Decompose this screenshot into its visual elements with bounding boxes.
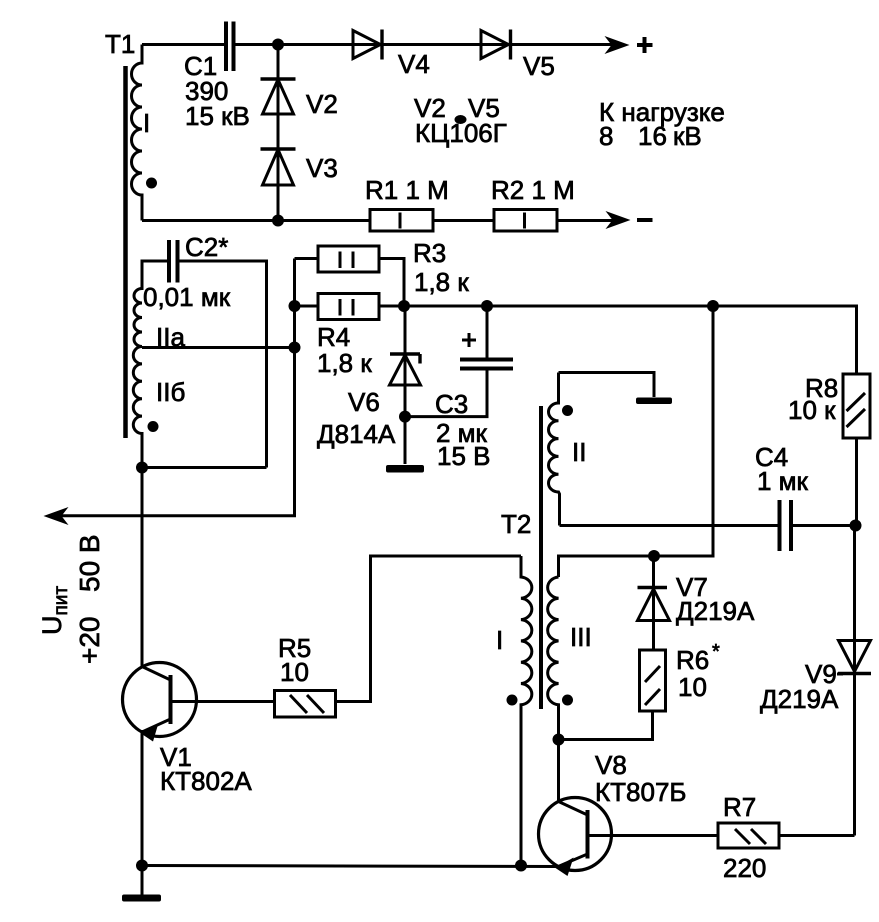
transistor V1 [123, 663, 275, 866]
arrow minus output [606, 211, 631, 229]
label V8 [595, 750, 686, 807]
svg-text:*: * [712, 641, 720, 663]
svg-text:15 В: 15 В [437, 441, 491, 471]
svg-text:R3: R3 [413, 238, 446, 268]
diode V7 [638, 556, 670, 650]
wire node column [60, 259, 295, 516]
wire C2 right side down [180, 261, 267, 468]
svg-text:50 В: 50 В [74, 534, 105, 592]
node V6 bottom junction [399, 411, 411, 423]
resistor R4 [295, 294, 405, 320]
label V2...V5 type [414, 93, 507, 148]
node V7 junction [648, 550, 660, 562]
svg-text:кВ: кВ [673, 121, 702, 151]
node C1/V2 junction [272, 39, 284, 51]
transformer T1 winding I [132, 45, 143, 221]
transformer T2 core [539, 406, 543, 709]
svg-text:10 к: 10 к [788, 395, 836, 425]
label V7 [676, 572, 755, 626]
svg-text:III: III [570, 622, 592, 652]
svg-text:Т1: Т1 [105, 29, 135, 59]
diode V4 [353, 30, 382, 60]
svg-text:V2: V2 [306, 89, 338, 119]
svg-text:Д219А: Д219А [676, 596, 755, 626]
label C3 [435, 389, 491, 471]
resistor R5 [275, 691, 336, 718]
diode V5 [481, 30, 511, 60]
capacitor C2 [169, 240, 178, 283]
wire R1 to R2 [433, 219, 494, 222]
svg-text:1 мк: 1 мк [757, 466, 809, 496]
node R3 output junction [398, 300, 410, 312]
svg-text:V4: V4 [398, 49, 430, 79]
svg-text:15 кВ: 15 кВ [185, 101, 250, 131]
label R5 [278, 633, 311, 687]
svg-text:10: 10 [280, 657, 309, 687]
label V6 [317, 387, 396, 449]
label R7 [723, 792, 766, 883]
resistor R6 [640, 650, 666, 711]
svg-text:С2*: С2* [185, 232, 228, 262]
node V1 emitter junction [136, 860, 148, 872]
resistor R8 [843, 374, 870, 438]
node tap junction [289, 342, 301, 354]
svg-text:I: I [143, 108, 150, 138]
minus output label [637, 218, 653, 222]
label R4 [317, 322, 372, 378]
svg-text:220: 220 [723, 853, 766, 883]
svg-text:КЦ106Г: КЦ106Г [415, 118, 507, 148]
wire R7 to V8 base [588, 834, 718, 837]
wire C2 top side [142, 261, 167, 289]
transistor V8 [539, 798, 612, 877]
label Upit rotated [37, 534, 105, 664]
diode V2 [261, 45, 296, 221]
wire IIb bottom to C2 loop [142, 466, 267, 469]
node R4 left junction [289, 300, 301, 312]
T2 winding III polarity dot [562, 695, 573, 706]
wire C1 to plus arrow through V4 V5 [236, 43, 617, 46]
plus output label [637, 37, 653, 53]
capacitor C3 electrolytic [405, 306, 513, 417]
svg-text:+20: +20 [74, 617, 105, 665]
T2 winding II polarity dot [562, 405, 573, 416]
svg-text:R1 1 М: R1 1 М [365, 175, 449, 205]
label R6 [676, 641, 720, 702]
svg-text:IIб: IIб [156, 377, 185, 407]
node C4/R8/V9 junction [850, 520, 862, 532]
wire R6 bottom to winding III bottom [559, 711, 653, 740]
wire winding II bottom to C4 [560, 524, 779, 527]
wire V1 collector lead [141, 468, 144, 668]
resistor R2 [494, 210, 557, 232]
svg-text:16: 16 [638, 121, 667, 151]
diode V3 [261, 149, 296, 185]
resistor R7 [718, 823, 779, 848]
svg-text:R7: R7 [723, 792, 756, 822]
T2 winding I polarity dot [507, 695, 518, 706]
svg-text:V5: V5 [523, 51, 555, 81]
svg-text:1,8 к: 1,8 к [414, 267, 469, 297]
wire V8 collector lead [557, 740, 560, 804]
transformer T1 winding IIa [134, 261, 142, 347]
node winding III bottom junction [553, 734, 565, 746]
resistor R3 [295, 246, 405, 306]
wire main rail to R8 [404, 306, 857, 374]
svg-text:Д219А: Д219А [760, 684, 839, 714]
wire C4 to right column [793, 524, 856, 527]
svg-text:V3: V3 [306, 153, 338, 183]
transformer T1 winding IIb [133, 347, 142, 468]
wire bottom emitter rail [142, 866, 557, 867]
transformer T1 core [123, 66, 128, 438]
wire T1 bottom row to R1 [142, 219, 370, 222]
wire T1 top to C1 [142, 43, 224, 46]
ground at V6 [386, 465, 424, 473]
resistor R1 [370, 210, 433, 232]
label K nagruzke [599, 97, 725, 151]
label V1 [160, 742, 252, 796]
T1 winding IIb polarity dot [148, 421, 159, 432]
node IIb bottom junction [136, 462, 148, 474]
svg-text:0,01 мк: 0,01 мк [143, 282, 231, 312]
T1 winding I polarity dot [146, 178, 157, 189]
wire ground lead [141, 866, 144, 896]
transformer T2 winding III [548, 577, 559, 740]
wire V9 to R7 [779, 834, 855, 837]
svg-text:8: 8 [599, 121, 613, 151]
svg-text:R2 1 М: R2 1 М [491, 175, 575, 205]
svg-text:IIа: IIа [156, 322, 185, 352]
label R8 [788, 373, 838, 425]
node V3 bottom junction [272, 215, 284, 227]
C3 plus mark [462, 333, 476, 347]
transformer T2 winding I [521, 556, 532, 866]
label V9 [760, 659, 843, 714]
svg-text:R6: R6 [676, 645, 709, 675]
zener diode V6 [390, 306, 421, 464]
svg-text:КТ802А: КТ802А [160, 766, 252, 796]
wire winding III feed column [559, 306, 714, 577]
transformer T2 winding II [549, 373, 560, 526]
node T2 winding I bottom junction [515, 860, 527, 872]
arrow plus output [605, 36, 630, 54]
label C4 [755, 442, 809, 496]
wire R8 bottom [855, 438, 858, 526]
svg-text:Т2: Т2 [501, 509, 531, 539]
arrow Upit supply [44, 507, 69, 525]
svg-text:1,8 к: 1,8 к [317, 348, 372, 378]
capacitor C1 [226, 22, 234, 72]
label C1 value [184, 51, 250, 131]
svg-text:II: II [572, 437, 586, 467]
svg-text:С3: С3 [435, 389, 468, 419]
wire winding II top to chassis [559, 373, 655, 398]
chassis bar at winding II [636, 398, 672, 405]
capacitor C4 [780, 500, 792, 551]
svg-text:Д814А: Д814А [317, 419, 396, 449]
svg-text:V8: V8 [595, 750, 627, 780]
wire R2 to minus output arrow [557, 219, 617, 222]
diode V9 [838, 526, 871, 836]
ground at V1 emitter [122, 895, 161, 902]
svg-text:V6: V6 [348, 387, 380, 417]
node C3 junction [481, 300, 493, 312]
node winding III feed junction [707, 300, 719, 312]
label R3 [413, 238, 469, 297]
svg-text:КТ807Б: КТ807Б [595, 777, 686, 807]
wire R5 to winding I top [336, 556, 522, 702]
wire winding tap to node column [142, 346, 295, 349]
svg-text:10: 10 [678, 672, 707, 702]
svg-text:I: I [496, 625, 503, 655]
